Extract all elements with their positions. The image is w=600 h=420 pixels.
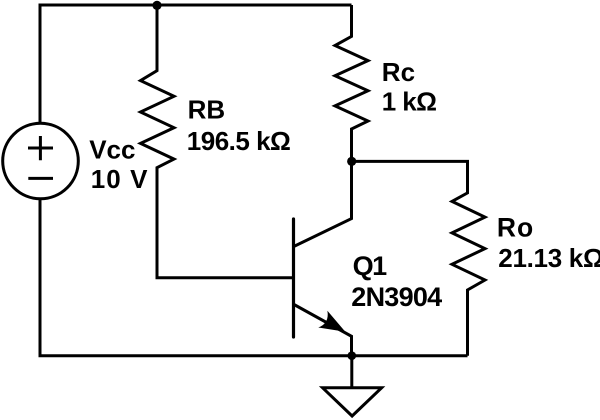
- svg-text:RB: RB: [188, 94, 226, 124]
- svg-text:Vcc: Vcc: [89, 134, 135, 164]
- svg-text:Q1: Q1: [353, 251, 388, 281]
- svg-text:2N3904: 2N3904: [351, 282, 442, 312]
- svg-text:10 V: 10 V: [91, 164, 149, 194]
- svg-text:1 kΩ: 1 kΩ: [382, 87, 437, 117]
- svg-text:Rc: Rc: [382, 57, 415, 87]
- svg-text:Ro: Ro: [497, 213, 534, 243]
- svg-text:196.5 kΩ: 196.5 kΩ: [187, 126, 291, 156]
- svg-text:21.13 kΩ: 21.13 kΩ: [498, 243, 600, 273]
